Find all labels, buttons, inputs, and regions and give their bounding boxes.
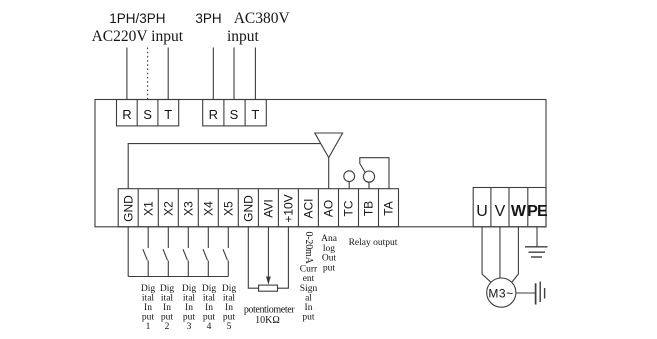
motor M3~ bbox=[487, 278, 516, 307]
svg-text:3PH: 3PH bbox=[195, 11, 221, 26]
svg-text:5: 5 bbox=[227, 322, 232, 332]
svg-text:R: R bbox=[209, 107, 218, 122]
label: Digital Input 5 bbox=[222, 284, 237, 332]
svg-text:AO: AO bbox=[322, 200, 336, 217]
svg-text:Dig: Dig bbox=[182, 284, 197, 294]
label: Digital Input 4 bbox=[202, 284, 217, 332]
wire: TB contact stem bbox=[368, 182, 370, 189]
potentiometer wiper arrow bbox=[266, 277, 271, 285]
earth ground (PE) bbox=[525, 247, 548, 257]
label: Digital Input 3 bbox=[182, 284, 197, 332]
svg-text:Relay output: Relay output bbox=[349, 238, 398, 248]
svg-text:2: 2 bbox=[165, 322, 170, 332]
wire: 220V input T bbox=[167, 48, 169, 100]
svg-text:Curr: Curr bbox=[300, 265, 318, 275]
svg-text:TC: TC bbox=[342, 200, 356, 216]
wire: amplifier output to AO bbox=[328, 158, 330, 189]
svg-text:ital: ital bbox=[223, 294, 235, 304]
switch S2 (X2) bbox=[163, 227, 168, 277]
svg-text:Sign: Sign bbox=[300, 284, 318, 294]
wire: TC contact stem bbox=[348, 182, 350, 189]
relay contact TC circle bbox=[344, 171, 355, 182]
svg-text:put: put bbox=[183, 313, 196, 323]
svg-text:AC380V: AC380V bbox=[234, 10, 291, 27]
svg-text:In: In bbox=[225, 303, 233, 313]
svg-text:put: put bbox=[161, 313, 174, 323]
wire: 380V input S bbox=[233, 48, 235, 100]
svg-text:GND: GND bbox=[242, 195, 256, 222]
svg-text:1: 1 bbox=[146, 322, 151, 332]
inverter main box bbox=[95, 100, 546, 227]
svg-text:ital: ital bbox=[142, 294, 154, 304]
svg-text:Dig: Dig bbox=[202, 284, 217, 294]
svg-text:potentiometer: potentiometer bbox=[244, 305, 295, 316]
svg-text:+10V: +10V bbox=[282, 194, 296, 222]
svg-text:3: 3 bbox=[187, 322, 192, 332]
svg-text:T: T bbox=[164, 107, 172, 122]
svg-text:ital: ital bbox=[161, 294, 173, 304]
wire: 380V input T bbox=[254, 48, 256, 100]
svg-text:X5: X5 bbox=[222, 201, 236, 216]
svg-text:M3~: M3~ bbox=[488, 287, 513, 301]
switch S4 (X4) bbox=[203, 227, 208, 277]
svg-text:ent: ent bbox=[303, 274, 315, 284]
wire: 220V input R bbox=[126, 48, 128, 100]
svg-text:put: put bbox=[323, 263, 336, 273]
svg-text:Dig: Dig bbox=[141, 284, 156, 294]
wire: GND to amplifier input bbox=[128, 144, 321, 189]
svg-text:TA: TA bbox=[382, 201, 396, 215]
svg-text:put: put bbox=[203, 313, 216, 323]
svg-text:ital: ital bbox=[203, 294, 215, 304]
label: Digital Input 1 bbox=[141, 284, 156, 332]
svg-text:In: In bbox=[144, 303, 152, 313]
svg-text:ital: ital bbox=[183, 294, 195, 304]
svg-text:Ana: Ana bbox=[321, 234, 338, 244]
svg-text:AC220V input: AC220V input bbox=[92, 28, 184, 45]
svg-text:al: al bbox=[305, 293, 312, 303]
svg-text:0-20mA: 0-20mA bbox=[303, 232, 314, 265]
svg-text:U: U bbox=[476, 203, 488, 220]
svg-text:input: input bbox=[227, 28, 260, 45]
wire: V to motor bbox=[499, 227, 501, 278]
wire: digital common bus bbox=[128, 276, 228, 278]
wire: 220V input S (dashed) bbox=[147, 48, 149, 100]
svg-text:put: put bbox=[142, 313, 155, 323]
svg-text:log: log bbox=[323, 244, 335, 254]
svg-text:put: put bbox=[302, 313, 315, 323]
relay contact TB circle bbox=[363, 171, 374, 182]
label: Digital Input 2 bbox=[160, 284, 175, 332]
svg-text:TB: TB bbox=[362, 201, 376, 216]
control terminal strip (14 cells) bbox=[118, 189, 398, 227]
svg-text:Dig: Dig bbox=[222, 284, 237, 294]
svg-text:X1: X1 bbox=[141, 201, 155, 216]
svg-text:In: In bbox=[185, 303, 193, 313]
svg-text:ACI: ACI bbox=[302, 198, 316, 218]
svg-text:X4: X4 bbox=[202, 201, 216, 216]
svg-text:Dig: Dig bbox=[160, 284, 175, 294]
relay switch arm (TA common) bbox=[360, 158, 389, 189]
terminal block RST (220V) bbox=[117, 100, 179, 126]
op-amp buffer triangle (AO driver) bbox=[315, 133, 343, 158]
wire: W to motor bbox=[512, 227, 519, 283]
svg-text:GND: GND bbox=[121, 195, 135, 222]
wire: AVI to wiper bbox=[267, 227, 269, 277]
wire: 380V input R bbox=[212, 48, 214, 100]
output terminal block UVWPE bbox=[473, 188, 546, 227]
svg-text:S: S bbox=[230, 107, 239, 122]
switch S1 (X1) bbox=[143, 227, 148, 277]
svg-text:R: R bbox=[122, 107, 131, 122]
svg-text:PE: PE bbox=[527, 203, 548, 220]
label: potentiometer 10KΩ bbox=[244, 305, 295, 327]
wire: U to motor bbox=[482, 227, 491, 282]
svg-text:In: In bbox=[205, 303, 213, 313]
svg-text:4: 4 bbox=[207, 322, 212, 332]
svg-text:X3: X3 bbox=[182, 201, 196, 216]
wire: motor to chassis ground bbox=[516, 292, 535, 294]
svg-text:In: In bbox=[163, 303, 171, 313]
label: Current Signal Input bbox=[300, 265, 318, 323]
wire: +10V to potentiometer right bbox=[278, 227, 289, 288]
svg-text:AVI: AVI bbox=[262, 199, 276, 217]
svg-text:In: In bbox=[305, 303, 313, 313]
switch S5 (X5) bbox=[223, 227, 228, 277]
chassis ground (motor frame) bbox=[536, 282, 545, 305]
label: Analog Output bbox=[321, 234, 338, 273]
svg-text:put: put bbox=[223, 313, 236, 323]
svg-text:W: W bbox=[511, 203, 527, 220]
wire: GND to potentiometer left bbox=[248, 227, 258, 288]
switch S3 (X3) bbox=[183, 227, 188, 277]
wire: GND down to digital common bus bbox=[127, 227, 129, 277]
potentiometer R body bbox=[259, 285, 278, 291]
svg-text:Out: Out bbox=[322, 254, 337, 264]
wire: PE down bbox=[536, 227, 538, 247]
svg-text:10KΩ: 10KΩ bbox=[255, 315, 280, 326]
svg-text:V: V bbox=[495, 203, 506, 220]
svg-text:X2: X2 bbox=[162, 201, 176, 216]
terminal block RST (380V) bbox=[203, 100, 267, 126]
svg-text:1PH/3PH: 1PH/3PH bbox=[109, 11, 165, 26]
svg-text:S: S bbox=[143, 107, 152, 122]
svg-text:T: T bbox=[251, 107, 259, 122]
